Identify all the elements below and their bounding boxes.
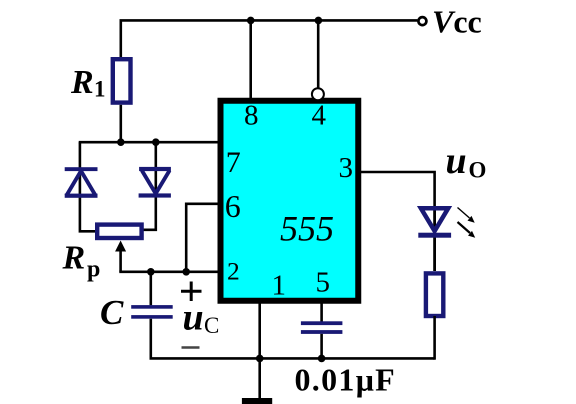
resistor R2 (output) xyxy=(426,273,443,316)
pin 3 label xyxy=(339,152,354,184)
pin 5 label xyxy=(316,267,331,299)
op IC 555 body U1 xyxy=(221,101,359,301)
wire: left branch down through D1 xyxy=(80,142,96,231)
label Rp xyxy=(62,240,101,283)
junction: top rail / pin 4 xyxy=(315,17,323,25)
svg-text:p: p xyxy=(87,256,100,282)
pin 7 label xyxy=(226,146,241,179)
pin 4 label xyxy=(312,100,327,132)
junction: top rail / pin 8 xyxy=(247,17,255,25)
diode D2 (right, pointing down) xyxy=(139,167,171,198)
svg-text:2: 2 xyxy=(227,256,240,285)
junction: 0.01uF node xyxy=(318,355,326,363)
label 555 xyxy=(280,209,334,249)
pin 1 label xyxy=(272,270,287,302)
svg-text:7: 7 xyxy=(226,146,241,179)
svg-text:6: 6 xyxy=(225,188,241,224)
junction: node C branch xyxy=(147,268,155,276)
wire: pin 4 to rail xyxy=(317,20,320,89)
wire: pin 2 horizontal line xyxy=(119,270,218,273)
svg-text:C: C xyxy=(204,313,219,338)
wire: pin 6 branch xyxy=(186,204,218,272)
potentiometer Rp body xyxy=(97,225,141,238)
pin 8 label xyxy=(244,100,259,132)
LED light arrow 2 xyxy=(458,222,476,238)
wire: capacitor C top lead xyxy=(150,272,153,306)
pin 6 label xyxy=(225,188,241,224)
wire: 0.01uF bottom lead xyxy=(320,334,323,359)
label R1 xyxy=(70,64,106,102)
wire: R1 bottom to node A xyxy=(120,105,123,142)
svg-text:8: 8 xyxy=(244,100,259,132)
svg-text:3: 3 xyxy=(339,152,354,184)
wire: pin 1 to rail xyxy=(258,303,261,358)
wire: pin 8 to rail xyxy=(249,20,252,99)
pin 2 label xyxy=(227,256,240,285)
label - (uC polarity) xyxy=(182,346,200,349)
svg-text:R: R xyxy=(62,240,86,277)
wire: R2 bottom to rail xyxy=(433,316,436,360)
svg-text:1: 1 xyxy=(94,77,106,102)
junction: ground node xyxy=(256,355,264,363)
wire: pin 7 horizontal line xyxy=(79,141,218,144)
capacitor 0.01uF xyxy=(301,321,343,334)
wire: pin 3 output xyxy=(361,172,435,207)
wire: right branch down through D2 xyxy=(144,142,156,230)
ground xyxy=(242,358,272,404)
junction: pin 6 branch xyxy=(182,268,190,276)
svg-text:R: R xyxy=(70,64,94,101)
wire: top supply rail xyxy=(121,20,418,58)
wire: capacitor C bottom lead xyxy=(151,319,435,359)
svg-text:Vcc: Vcc xyxy=(432,4,482,40)
pin 4 inverter circle xyxy=(312,88,324,100)
junction: node A (R1 / diodes) xyxy=(117,138,125,146)
capacitor C xyxy=(131,305,173,319)
LED light arrow 1 xyxy=(458,208,475,223)
svg-text:555: 555 xyxy=(280,209,334,249)
diode D1 (left, pointing up) xyxy=(65,167,98,198)
svg-text:0.01μF: 0.01μF xyxy=(295,362,397,398)
label C xyxy=(100,293,124,332)
LED D3 xyxy=(418,206,451,271)
wire: pin 5 top lead xyxy=(320,303,323,322)
label 0.01uF xyxy=(295,362,397,398)
svg-text:4: 4 xyxy=(312,100,327,132)
potentiometer Rp wiper arrow xyxy=(115,241,126,272)
svg-text:C: C xyxy=(100,293,124,332)
terminal Vcc xyxy=(418,17,426,25)
junction: node B (right diode) xyxy=(152,138,160,146)
svg-text:u: u xyxy=(183,296,204,338)
label + (uC polarity) xyxy=(181,282,202,302)
svg-text:u: u xyxy=(446,140,467,182)
svg-text:1: 1 xyxy=(272,270,287,302)
svg-text:O: O xyxy=(469,158,487,183)
svg-text:5: 5 xyxy=(316,267,331,299)
label uO xyxy=(446,140,487,183)
label Vcc xyxy=(432,4,482,40)
label uC xyxy=(183,296,220,338)
resistor R1 xyxy=(113,59,131,102)
